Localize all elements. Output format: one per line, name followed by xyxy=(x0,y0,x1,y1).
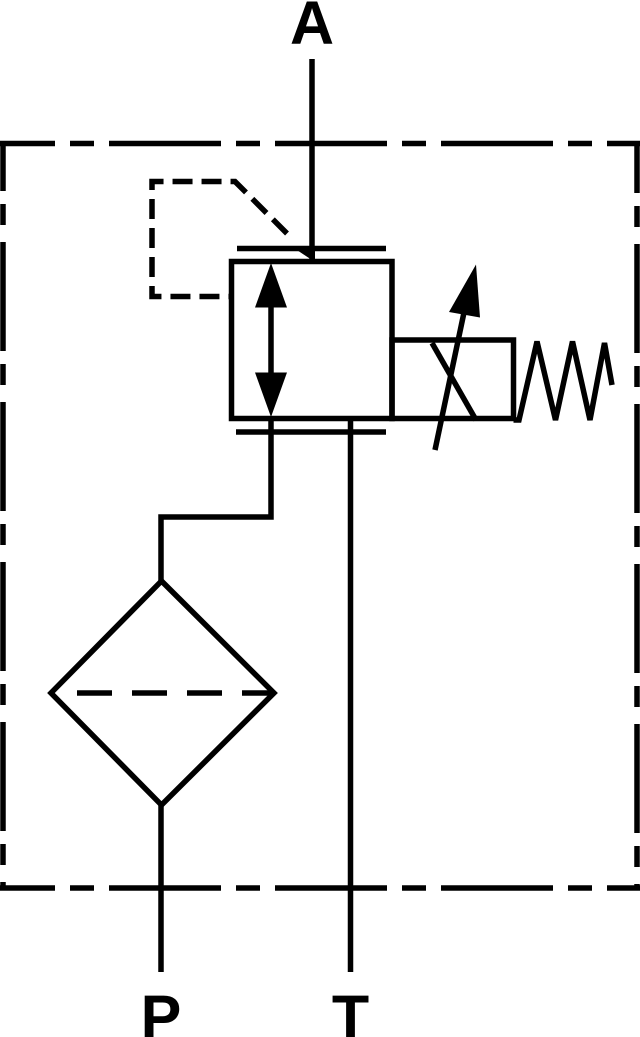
wire port A to valve xyxy=(309,59,315,262)
enclosure boundary left xyxy=(0,141,6,890)
valve spool arrowhead down xyxy=(255,373,287,418)
filter element dashed line xyxy=(77,690,273,696)
valve spool double arrow shaft xyxy=(268,303,274,378)
wire valve to filter xyxy=(161,419,271,584)
svg-text:P: P xyxy=(141,983,182,1037)
valve bottom port tick xyxy=(236,429,386,435)
wire valve to port T xyxy=(348,419,354,973)
valve spool arrowhead up xyxy=(255,263,287,308)
wire filter to port P xyxy=(158,805,164,972)
spring adjuster box xyxy=(392,340,514,419)
valve body V1 xyxy=(232,262,393,419)
adjustment arrow shaft xyxy=(435,303,466,450)
enclosure boundary top xyxy=(0,141,640,147)
enclosure boundary bottom xyxy=(0,885,640,891)
arrowhead on A wire xyxy=(295,249,315,262)
adjustment arrowhead xyxy=(449,265,480,318)
filter F1 diamond xyxy=(51,581,274,805)
enclosure boundary right xyxy=(634,142,640,890)
svg-text:A: A xyxy=(290,0,334,57)
spring xyxy=(514,342,613,421)
svg-text:T: T xyxy=(332,983,369,1037)
valve top port tick xyxy=(237,246,386,252)
adjuster cross diagonal xyxy=(432,343,476,420)
pilot line dashed xyxy=(152,182,287,297)
